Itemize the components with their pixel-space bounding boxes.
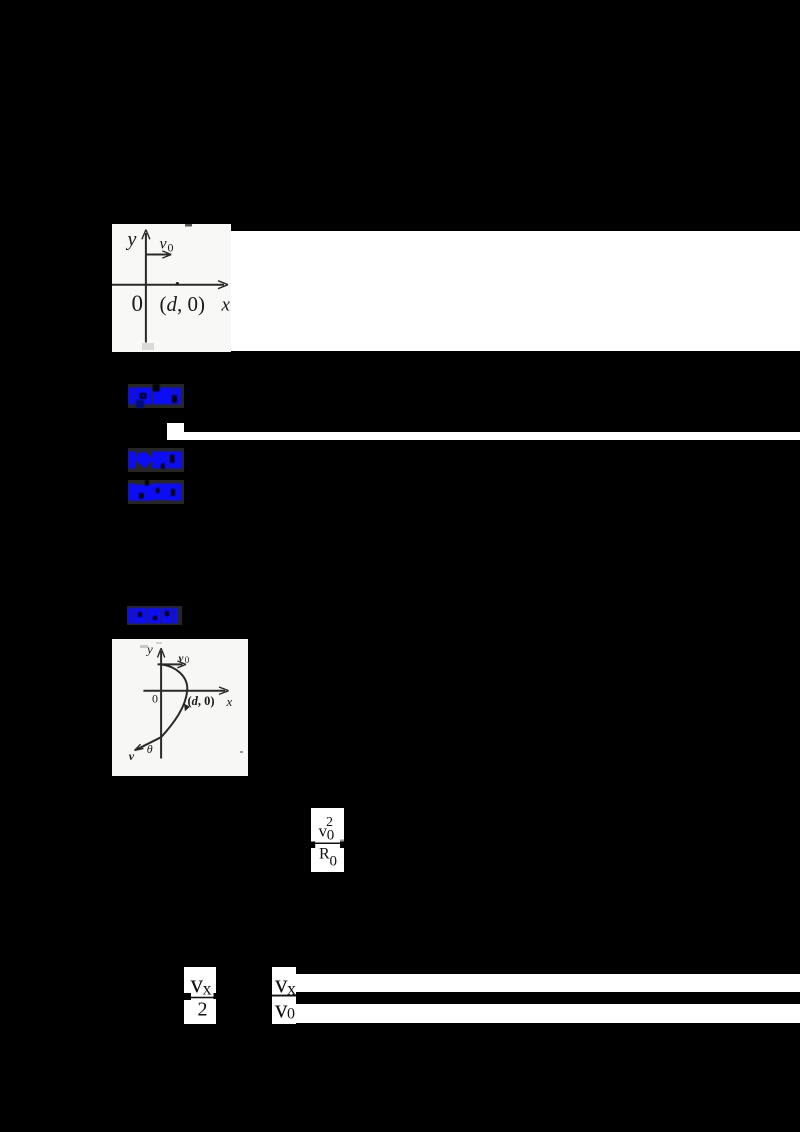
white bar 1 — [296, 974, 800, 992]
label 【解答】 — [127, 606, 182, 625]
fraction v0^2 / R0 — [311, 808, 344, 872]
highlighted line bar — [167, 432, 800, 440]
scan speckles — [140, 642, 243, 753]
svg-text:(d, 0): (d, 0) — [160, 292, 206, 316]
svg-text:0: 0 — [330, 854, 338, 870]
highlighted line notch — [167, 423, 184, 433]
v arrowhead bottom left — [135, 744, 144, 750]
figure 2: trajectory scan — [112, 639, 248, 776]
fraction bar — [190, 997, 214, 999]
svg-text:x: x — [203, 979, 212, 999]
x-axis — [112, 284, 224, 286]
svg-text:0: 0 — [168, 241, 174, 255]
y-axis — [160, 651, 162, 759]
velocity arrowhead on curve — [184, 704, 189, 710]
svg-text:v: v — [129, 749, 135, 763]
fraction bar — [272, 995, 296, 997]
svg-text:x: x — [221, 295, 231, 316]
svg-text:y: y — [126, 229, 137, 251]
svg-text:0: 0 — [287, 1006, 295, 1023]
white bar 2 — [296, 1004, 800, 1023]
svg-text:0: 0 — [132, 291, 144, 316]
y-axis — [145, 233, 147, 343]
label 【专题】 — [128, 448, 184, 472]
figure 1: coordinate axes scan — [112, 224, 231, 352]
svg-text:(d, 0): (d, 0) — [188, 694, 215, 708]
svg-text:x: x — [226, 694, 233, 709]
svg-text:y: y — [145, 642, 153, 657]
scan smudges — [185, 224, 192, 227]
label 【考点】 — [128, 384, 184, 408]
x-axis — [143, 690, 225, 692]
svg-text:R: R — [319, 846, 330, 863]
v0 arrow — [158, 663, 183, 665]
svg-text:θ: θ — [147, 742, 153, 756]
fraction vx / 2 — [184, 967, 216, 1024]
label 【分析】 — [128, 480, 184, 504]
svg-text:v: v — [179, 653, 184, 665]
equation band (white) — [112, 231, 800, 351]
v0 arrow — [146, 254, 169, 256]
svg-text:0: 0 — [152, 692, 158, 706]
svg-text:0: 0 — [185, 655, 190, 665]
dot on x-axis — [176, 282, 179, 285]
fraction vx / v0 — [272, 967, 296, 1024]
trajectory curve — [137, 664, 187, 749]
svg-text:v: v — [160, 236, 168, 253]
fraction bar — [311, 843, 344, 845]
svg-text:2: 2 — [198, 999, 208, 1021]
svg-text:0: 0 — [327, 828, 335, 844]
